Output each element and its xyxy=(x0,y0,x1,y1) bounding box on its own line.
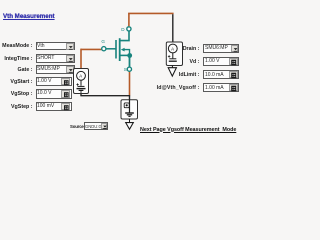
drain SMU lead + triangle xyxy=(171,66,173,68)
wire: gate down to gate SMU xyxy=(80,49,82,69)
gate SMU box xyxy=(74,69,89,94)
VgStart entry xyxy=(36,77,72,86)
source junction dot xyxy=(127,53,132,58)
Id@Vth entry xyxy=(203,83,239,92)
MOSFET source stub xyxy=(120,54,130,56)
right column labels xyxy=(183,46,200,52)
schematic SVG xyxy=(0,0,240,138)
wire: top horizontal xyxy=(128,12,174,14)
svg-text:D: D xyxy=(121,27,125,32)
wire: gate SMU bottom down xyxy=(80,94,82,96)
GNDU inner line xyxy=(129,100,131,113)
left column labels xyxy=(2,43,32,49)
svg-text:S: S xyxy=(124,67,127,72)
GNDU ground bars xyxy=(125,112,134,114)
Gate combo xyxy=(36,65,75,74)
gate SMU source bar xyxy=(78,85,85,87)
svg-text:A: A xyxy=(171,46,174,51)
Drain combo xyxy=(203,44,239,53)
wire: gate horizontal orange xyxy=(81,48,101,50)
MOSFET drain stub xyxy=(120,31,129,40)
Vd entry xyxy=(203,57,239,66)
svg-text:A: A xyxy=(79,74,82,79)
drain SMU ammeter circle xyxy=(168,44,177,53)
wire: source node down orange xyxy=(129,72,131,96)
drain SMU box xyxy=(166,42,182,66)
MOSFET Q1 gate bar xyxy=(115,40,117,59)
Source combo xyxy=(84,122,108,129)
IntegTime combo xyxy=(36,54,75,63)
IdLimit entry xyxy=(203,70,239,79)
wire from dot to S node xyxy=(129,56,131,67)
gate wire teal from G node xyxy=(106,48,116,50)
bottom link text xyxy=(140,127,236,133)
wire: down to drain SMU xyxy=(172,14,174,42)
svg-text:G: G xyxy=(101,39,105,44)
MOSFET Q1 channel bar xyxy=(119,38,121,61)
VgStep entry xyxy=(36,102,72,111)
drain SMU plus xyxy=(168,55,170,57)
wire: ground bus horizontal xyxy=(80,95,130,97)
node G circle xyxy=(102,47,106,51)
MOSFET body arrow xyxy=(121,48,125,52)
gate SMU ground bars xyxy=(77,88,86,90)
wire: down into gnd box xyxy=(129,96,131,101)
title xyxy=(3,13,55,20)
node D circle xyxy=(127,27,131,31)
MeasMode combo xyxy=(36,42,75,51)
node S circle xyxy=(127,67,131,71)
gate SMU ammeter circle xyxy=(77,71,86,80)
VgStop entry xyxy=(36,89,72,98)
GNDU meter square xyxy=(124,103,129,108)
drain SMU ground bars xyxy=(169,60,177,62)
Source label xyxy=(70,124,100,129)
GNDU box xyxy=(121,100,138,119)
gate SMU plus xyxy=(76,83,78,85)
GNDU lead + triangle xyxy=(129,119,131,123)
drain SMU source bar xyxy=(169,58,176,60)
wire: drain node up xyxy=(128,13,130,26)
